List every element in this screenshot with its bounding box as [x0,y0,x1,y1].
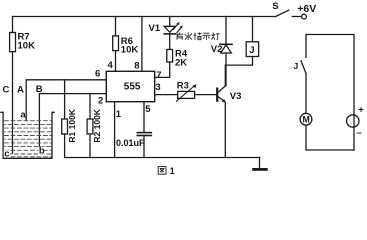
svg-text:V1: V1 [149,23,161,34]
svg-text:c: c [4,149,9,160]
svg-text:A: A [17,85,24,96]
svg-text:V2: V2 [211,44,223,55]
水 [185,32,192,40]
wire J bottom to V2 junction [226,57,253,66]
wire pin 2 from electrode B [39,94,106,147]
svg-text:2K: 2K [175,58,187,69]
wire R2 bottom [89,134,91,158]
water hatching [5,121,52,157]
wire pin 3 to V3 base [155,94,217,96]
svg-text:2: 2 [98,95,103,106]
resistor R2 [87,119,93,134]
svg-text:V3: V3 [230,91,242,102]
resistor R7 [10,33,16,52]
svg-text:7: 7 [156,70,161,81]
svg-text:R2 100K: R2 100K [92,108,102,142]
wire R1 top [64,80,66,119]
wire top rail [13,16,276,18]
motor M [300,113,312,125]
wire J coil drop from rail [252,17,254,42]
svg-text:10K: 10K [18,40,36,51]
svg-text:J: J [294,61,299,71]
wire V3 emitter down [224,103,226,158]
wire V1 anode drop [169,17,171,27]
wire pin 1 down [114,102,116,158]
svg-text:1: 1 [170,166,175,176]
svg-text:B: B [36,84,43,95]
wire pin 6 from electrode A [26,80,106,121]
有 [175,33,183,40]
wire R1 bottom [64,134,66,158]
ground [259,158,261,169]
label 有水指示灯 (hand-drawn glyphs) [175,32,219,40]
relay contact J [301,61,306,74]
svg-text:1: 1 [116,109,122,120]
wire left drop to R7 [12,17,14,33]
relay contact circuit: top wire [306,35,354,115]
wire V2 cathode down [225,53,227,86]
svg-text:R1 100K: R1 100K [67,108,77,142]
label 图 1 caption [158,167,166,175]
svg-text:b: b [39,145,45,156]
指 [193,32,201,39]
svg-text:3: 3 [155,82,160,93]
transistor V3 [216,89,218,101]
wire R4 to pin 7 [155,62,170,77]
resistor R1 [62,119,68,134]
svg-text:6: 6 [95,69,100,80]
op-amp 555 timer U1 [106,71,154,101]
node c [4,150,10,157]
svg-text:5: 5 [145,104,151,115]
switch S [276,10,289,16]
node b [38,147,44,154]
wire R2 top [89,94,91,119]
svg-text:0.01uF: 0.01uF [116,138,145,148]
svg-text:+: + [358,104,364,115]
diode V2 [220,43,232,45]
svg-text:C: C [3,85,10,96]
wire bottom rail [65,157,260,159]
wire cap bottom [143,136,145,158]
wire V2 drop from rail [225,17,227,45]
灯 [212,32,220,39]
wire motor to bottom [306,125,354,150]
wire pin 5 down [143,102,145,133]
relay coil J [246,42,258,57]
svg-text:a: a [20,110,26,121]
wire R7 to electrode C [12,52,14,153]
wire V3 collector up [224,65,226,86]
capacitor C1 0.01uF [137,132,151,134]
示 [202,33,210,40]
svg-text:8: 8 [134,61,139,72]
svg-text:R3: R3 [177,81,189,92]
LED V1 [164,26,175,32]
svg-text:–: – [357,128,362,139]
svg-text:+6V: +6V [297,3,316,15]
potentiometer R3 [178,91,195,98]
resistor R6 [113,36,119,51]
svg-text:10K: 10K [121,45,139,56]
svg-text:4: 4 [108,60,114,71]
svg-text:555: 555 [124,82,141,93]
svg-text:S: S [272,1,278,12]
svg-text:M: M [303,114,310,124]
wire pin8 drop from rail [141,17,143,72]
resistor R4 [167,50,173,63]
wire R6 to pin 4 [115,51,117,72]
battery G [353,115,355,150]
wire pin4 drop from rail [115,17,117,36]
wire contact to motor [305,74,307,114]
wire V1 cathode to R4 [169,34,171,50]
svg-text:J: J [249,45,254,56]
tank container [1,112,54,158]
